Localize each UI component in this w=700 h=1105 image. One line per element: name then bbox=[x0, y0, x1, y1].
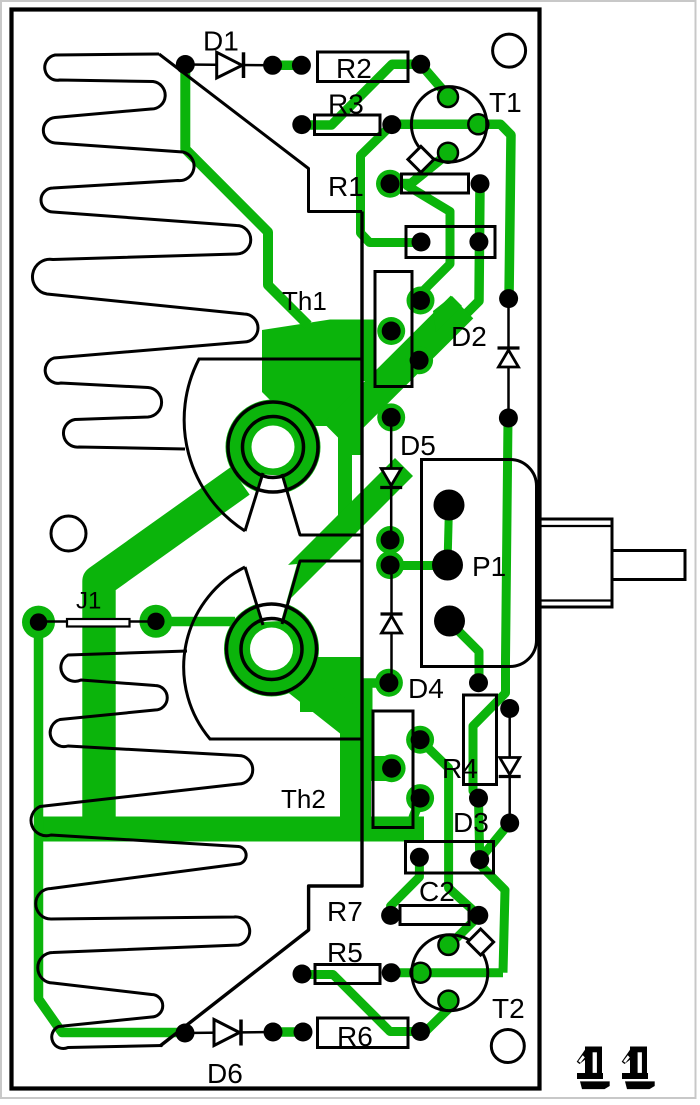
svg-text:R2: R2 bbox=[336, 53, 372, 84]
svg-text:D3: D3 bbox=[453, 807, 489, 838]
svg-text:Th1: Th1 bbox=[282, 286, 327, 316]
svg-text:C2: C2 bbox=[419, 876, 455, 907]
svg-text:D1: D1 bbox=[203, 26, 239, 57]
svg-text:T1: T1 bbox=[489, 87, 522, 118]
svg-text:R5: R5 bbox=[327, 937, 363, 968]
svg-text:D5: D5 bbox=[400, 430, 436, 461]
svg-text:R3: R3 bbox=[328, 89, 364, 120]
svg-text:T2: T2 bbox=[492, 993, 525, 1024]
svg-text:R7: R7 bbox=[327, 896, 363, 927]
svg-text:Th2: Th2 bbox=[281, 784, 326, 814]
svg-text:D2: D2 bbox=[451, 321, 487, 352]
svg-text:D4: D4 bbox=[408, 673, 444, 704]
svg-text:P1: P1 bbox=[472, 551, 506, 582]
svg-text:R1: R1 bbox=[328, 171, 364, 202]
svg-text:R4: R4 bbox=[442, 753, 478, 784]
svg-text:J1: J1 bbox=[76, 588, 101, 615]
svg-text:D6: D6 bbox=[207, 1058, 243, 1089]
svg-text:R6: R6 bbox=[337, 1021, 373, 1052]
